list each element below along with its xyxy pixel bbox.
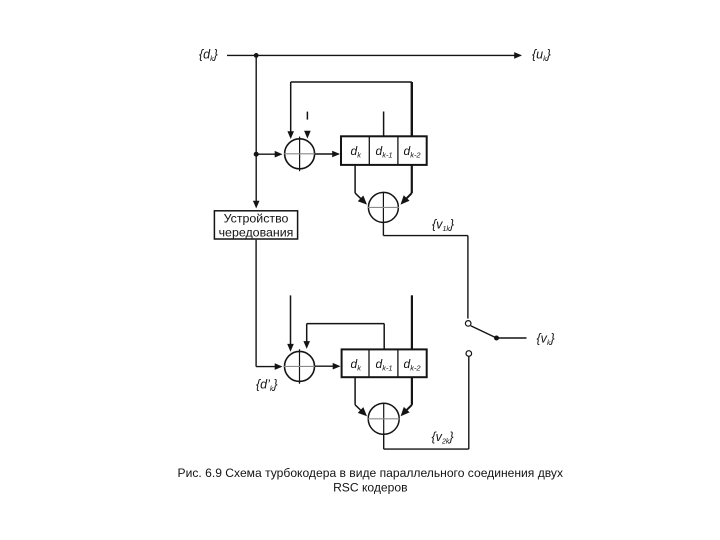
wire: feedback left vertical into XOR3 (287, 295, 294, 351)
interleaver box Устройство чередования (214, 211, 297, 240)
node {uk} output label (532, 48, 551, 64)
wire: dk-1 feedback loop encoder 2 (303, 324, 384, 350)
svg-text:чередования: чередования (219, 225, 294, 239)
node {d'k} label (256, 378, 278, 394)
wire: XOR1 to register 1 (315, 151, 340, 158)
value label dk-2 cell 3 (404, 144, 422, 160)
junction dot at input branch (254, 53, 259, 58)
value label dk-2 cell 3 register 2 (404, 357, 422, 373)
caption line 1 (178, 466, 563, 480)
wire: register1 dk output down to XOR2 (355, 165, 370, 208)
wire: bottom contact down to v2k line (468, 356, 470, 449)
svg-text:{dk}: {dk} (199, 48, 218, 64)
caption line 2 (333, 480, 407, 494)
op XOR4 output adder encoder 2 (368, 403, 400, 435)
svg-text:{v1k}: {v1k} (432, 218, 454, 234)
switch arm (471, 326, 497, 338)
register 2 shift register box (342, 349, 427, 377)
switch bottom contact (466, 351, 472, 357)
wire: feedback top horizontal (291, 81, 412, 83)
wire: main input line to uk output (227, 52, 522, 59)
node {v1k} label (432, 218, 454, 234)
value label dk-1 cell 2 (376, 144, 393, 160)
junction dot at encoder-1 input (254, 152, 259, 157)
switch top contact (465, 321, 471, 327)
value label dk cell 1 register 2 (351, 357, 363, 373)
svg-text:{d’k}: {d’k} (256, 378, 278, 394)
wire: interleaver output down and into XOR3 (256, 240, 282, 370)
wire: v1k output path to switch top contact (383, 222, 468, 318)
op XOR2 output adder encoder 1 (368, 192, 399, 223)
wire: XOR3 to register 2 (315, 363, 341, 370)
wire: riser above dk-1 cell of register 1 (383, 112, 385, 137)
svg-text:Устройство: Устройство (224, 211, 289, 225)
wire: feedback right vertical (thick) upper part (411, 82, 413, 137)
wire: register2 dk output down to XOR4 (355, 377, 370, 419)
svg-text:RSC кодеров: RSC кодеров (333, 480, 407, 494)
node {dk} input label (199, 48, 218, 64)
node {vk} output label (537, 332, 555, 348)
node {v2k} label (432, 430, 454, 446)
svg-text:{uk}: {uk} (532, 48, 551, 64)
switch pole dot (494, 336, 499, 341)
svg-text:{vk}: {vk} (537, 332, 555, 348)
wire: floating arrowhead into XOR1 second input (304, 131, 311, 139)
op XOR3 input adder encoder 2 (284, 349, 315, 384)
value label dk-1 cell 2 register 2 (376, 357, 393, 373)
wire: feedback left vertical into XOR1 (287, 82, 294, 139)
wire: short dash above XOR1 (dk-1 tap stub) (306, 112, 308, 120)
wire: switch pole to vk label (497, 337, 527, 339)
wire: into adder XOR1 (256, 151, 282, 158)
register 1 shift register box (341, 136, 427, 165)
wire: feedback thick vertical lower part into XOR4 (398, 377, 412, 419)
wire: feedback thick vertical lower part into XOR2 (398, 165, 412, 207)
op XOR1 input adder encoder 1 (284, 137, 315, 172)
wire: v2k output path up to switch bottom contact (384, 434, 469, 449)
wire: feedback right vertical (thick) upper part encoder 2 (411, 295, 413, 349)
svg-text:{v2k}: {v2k} (432, 430, 454, 446)
svg-text:Рис. 6.9 Схема турбокодера в в: Рис. 6.9 Схема турбокодера в виде паралл… (178, 466, 563, 480)
wire: vertical branch down to interleaver (253, 55, 260, 208)
value label dk cell 1 (351, 144, 363, 160)
